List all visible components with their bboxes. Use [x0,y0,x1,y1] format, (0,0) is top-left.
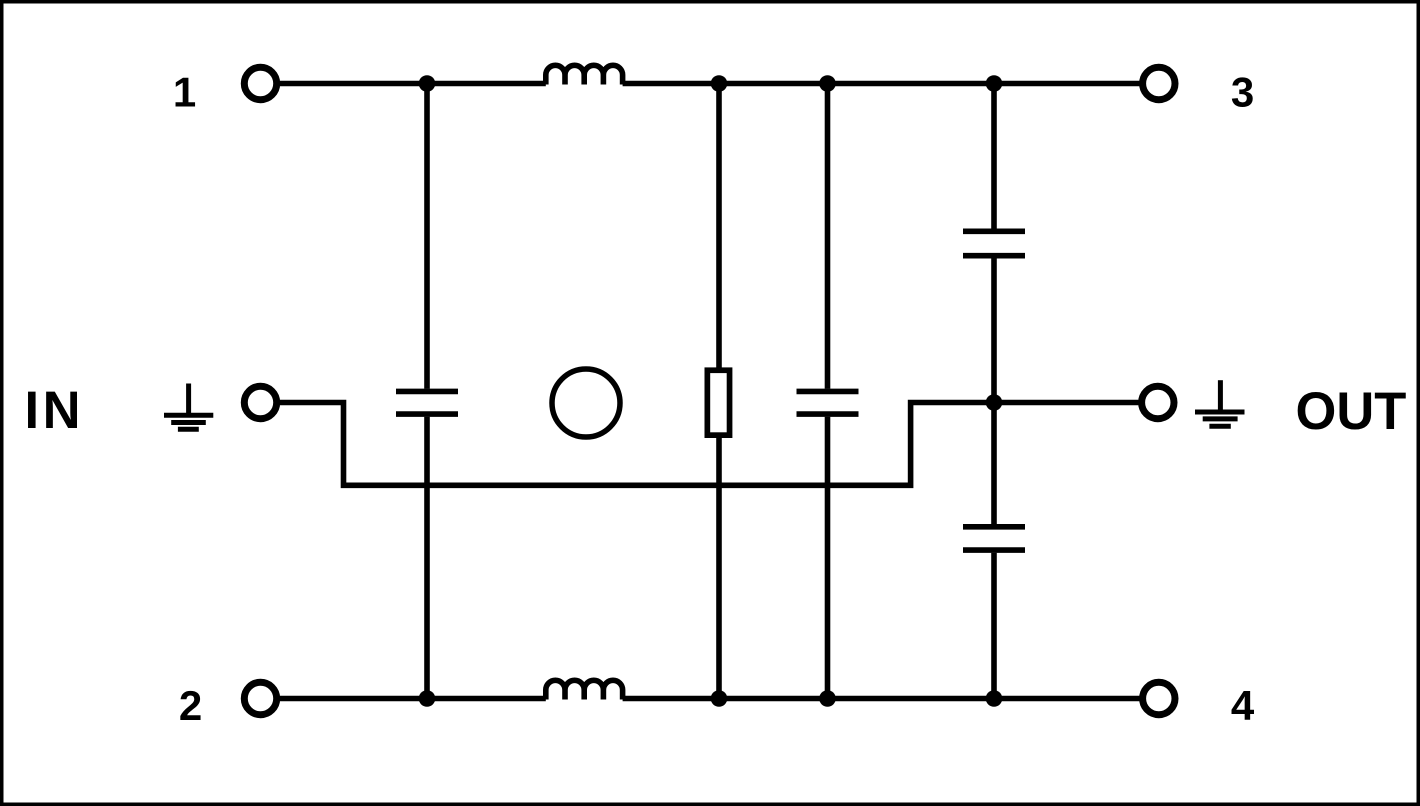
svg-text:IN: IN [25,381,85,440]
junction dot ground path at x=994 [986,394,1003,411]
svg-text:OUT: OUT [1296,382,1407,441]
ground symbol at OUT [1195,380,1245,426]
wire vertical branch at x=994, top segment [991,84,997,229]
capacitor C1 (X-capacitor across lines, left) [396,391,458,414]
terminal 1 [244,67,276,99]
svg-text:1: 1 [173,69,196,116]
capacitor C2 (X-capacitor across lines, right) [797,391,859,414]
wire top line left segment (terminal 1 to inductor) [261,81,546,87]
wire vertical branch at x=427, upper part [424,84,430,389]
svg-text:3: 3 [1231,69,1254,116]
inductor L2 (bottom line choke winding) [546,680,623,699]
choke core circle (toroid core symbol) [552,369,620,437]
resistor R1 (bleeder resistor across lines) [707,370,729,435]
junction dot bottom line at x=719 [711,690,728,707]
capacitor C4 (Y-capacitor ground to line 2) [963,527,1025,550]
junction dot top line at x=719 [711,75,728,92]
svg-text:4: 4 [1231,682,1255,729]
inductor L1 (top line choke winding) [546,65,623,84]
junction dot bottom line at x=427 [419,690,436,707]
svg-text:2: 2 [179,682,202,729]
wire vertical branch at x=719, lower part [716,435,722,698]
terminal 3 [1143,67,1175,99]
wire vertical branch at x=994, middle segment [991,258,997,524]
junction dot top line at x=427 [419,75,436,92]
terminal OUT (ground pin) [1142,386,1174,418]
capacitor C3 (Y-capacitor line 1 to ground) [963,231,1025,255]
junction dot bottom line at x=994 [986,690,1003,707]
terminal 4 [1143,682,1175,714]
wire vertical branch at x=994, bottom segment [991,553,997,699]
wire vertical branch at x=719, upper part [716,84,722,371]
ground symbol at IN [164,384,213,430]
wire ground path from IN terminal to OUT terminal [261,403,1158,486]
junction dot top line at x=827.5 [819,75,836,92]
wire top line right segment (inductor to terminal 3) [623,81,1159,87]
junction dot bottom line at x=827.5 [819,690,836,707]
terminal IN (ground pin) [244,386,276,418]
terminal 2 [244,682,276,714]
wire vertical branch at x=827.5, upper part [825,84,831,389]
wire vertical branch at x=427, lower part [424,417,430,699]
wire bottom line right segment (inductor to terminal 4) [623,696,1159,702]
wire vertical branch at x=827.5, lower part [825,417,831,699]
junction dot top line at x=994 [986,75,1003,92]
wire bottom line left segment (terminal 2 to inductor) [261,696,546,702]
